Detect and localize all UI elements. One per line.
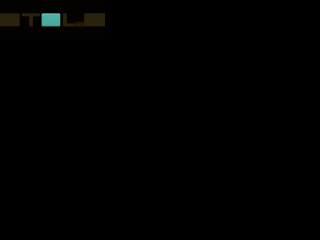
letter L stem bbox=[63, 13, 67, 26]
letter T top bar bbox=[22, 13, 40, 16]
background bbox=[0, 0, 105, 40]
teal square tile bbox=[42, 13, 61, 26]
dim lower-case glyph area bbox=[74, 22, 84, 27]
letter L foot bbox=[63, 23, 75, 26]
left dark glyph block bbox=[0, 13, 20, 26]
right dark glyph block bbox=[84, 13, 105, 26]
letter T stem bbox=[29, 13, 33, 26]
